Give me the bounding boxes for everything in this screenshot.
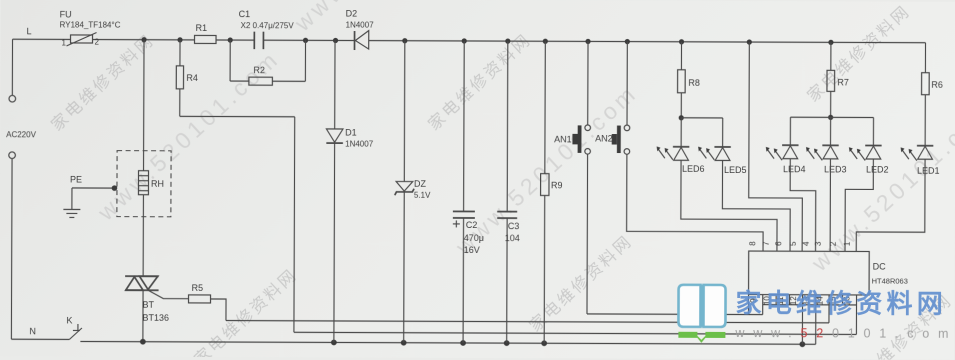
node AC220V label <box>6 130 36 139</box>
svg-text:104: 104 <box>505 233 520 243</box>
LED4 <box>766 117 806 174</box>
svg-text:R4: R4 <box>186 73 198 83</box>
wire LED6 to pin7 <box>681 160 778 251</box>
triac BT BT136 <box>125 276 169 323</box>
svg-text:LED6: LED6 <box>682 164 705 174</box>
svg-text:R7: R7 <box>837 77 849 87</box>
junction dots on top bus <box>141 37 833 45</box>
wire LED4 to pin4 <box>790 159 816 252</box>
heater RH in dashed enclosure <box>117 151 171 217</box>
svg-text:R6: R6 <box>931 80 943 90</box>
logo book icon <box>678 285 725 343</box>
capacitor C1 <box>238 9 294 49</box>
svg-text:AN2: AN2 <box>595 133 613 143</box>
svg-text:1: 1 <box>62 38 67 47</box>
svg-text:R5: R5 <box>192 283 204 293</box>
wire pin12 to ground bus <box>801 295 803 344</box>
svg-text:7: 7 <box>762 241 771 246</box>
svg-text:R2: R2 <box>253 65 265 75</box>
fuse FU RY184 <box>60 9 121 47</box>
svg-text:1N4007: 1N4007 <box>345 139 374 148</box>
diode D1 1N4007 <box>326 40 375 342</box>
wire bus A R5 to pin14 <box>226 293 829 323</box>
LED6 <box>657 118 705 174</box>
switch K <box>11 315 82 339</box>
wire pin13 to ground bus end <box>815 295 817 344</box>
svg-text:LED3: LED3 <box>824 164 847 174</box>
svg-text:C3: C3 <box>508 221 520 231</box>
svg-text:8: 8 <box>748 241 757 246</box>
svg-text:www.520101.com: www.520101.com <box>734 326 955 341</box>
wire LED2 to pin2 <box>845 159 873 252</box>
svg-text:LED5: LED5 <box>724 165 747 175</box>
wire bus B R4 to pin16 <box>294 293 857 335</box>
svg-text:K: K <box>66 315 72 325</box>
node PE with ground <box>63 174 117 217</box>
logo text <box>734 288 955 341</box>
svg-text:家电维修资料网: 家电维修资料网 <box>735 288 947 319</box>
svg-text:1: 1 <box>843 241 852 246</box>
svg-text:2: 2 <box>829 241 838 246</box>
svg-text:D2: D2 <box>346 8 358 18</box>
svg-text:3: 3 <box>814 241 823 246</box>
svg-text:470μ: 470μ <box>464 233 484 243</box>
LED3 <box>806 117 847 174</box>
push button AN1 <box>554 41 591 154</box>
svg-text:DZ: DZ <box>414 179 427 189</box>
svg-text:C1: C1 <box>239 9 251 19</box>
wire top bus <box>13 39 926 43</box>
svg-text:HT48R063: HT48R063 <box>872 277 908 286</box>
wire AN1 to pin9 bus <box>587 154 763 314</box>
capacitor C3 104 <box>497 41 521 343</box>
svg-text:FU: FU <box>60 9 72 19</box>
resistor R2 with loop wires <box>230 40 305 85</box>
LED5 <box>698 118 747 175</box>
wire LED5 to pin6 <box>722 160 790 251</box>
wire R5 to bus A <box>210 299 226 321</box>
diode D2 1N4007 <box>345 8 374 50</box>
svg-text:6: 6 <box>774 241 783 246</box>
svg-text:LED4: LED4 <box>783 164 806 174</box>
resistor R4 <box>176 40 198 89</box>
wire AN2 to pin8 <box>627 154 764 251</box>
wire bottom bus C <box>80 339 815 348</box>
svg-text:DC: DC <box>873 262 887 272</box>
svg-text:16V: 16V <box>464 245 480 255</box>
wire triac gate <box>148 290 189 298</box>
svg-text:BT136: BT136 <box>142 313 169 323</box>
capacitor C2 470u 16V <box>452 41 484 343</box>
svg-text:RH: RH <box>151 179 164 189</box>
resistor R6 <box>921 43 943 146</box>
svg-text:R1: R1 <box>196 23 208 33</box>
resistor R5 <box>189 283 211 303</box>
wire main line through RH <box>143 40 144 342</box>
resistor R7 <box>790 42 873 120</box>
node L terminal <box>9 26 32 102</box>
IC top pin numbers 8 7 6 5 4 3 2 1 <box>748 241 852 246</box>
wire R4 to bus B <box>179 89 295 332</box>
resistor R1 <box>195 23 217 44</box>
svg-text:PE: PE <box>70 174 82 184</box>
svg-text:R9: R9 <box>551 180 563 190</box>
svg-text:5: 5 <box>789 241 798 246</box>
svg-text:4: 4 <box>802 241 811 246</box>
push button AN2 <box>595 41 630 154</box>
svg-text:LED2: LED2 <box>866 164 889 174</box>
svg-text:AC220V: AC220V <box>6 130 36 139</box>
svg-text:1N4007: 1N4007 <box>346 20 375 29</box>
node N terminal <box>8 152 37 339</box>
wire LED3 to pin3 <box>829 159 831 251</box>
resistor R9 <box>540 41 563 343</box>
IC U1 HT48R063 body <box>749 251 908 295</box>
resistor R8 <box>677 42 723 121</box>
svg-text:5.1V: 5.1V <box>414 191 431 200</box>
svg-text:D1: D1 <box>345 127 357 137</box>
IC bottom pin cells and numbers 9-16 <box>748 295 856 315</box>
LED2 <box>849 117 889 174</box>
svg-text:LED1: LED1 <box>917 166 940 176</box>
svg-text:RY184_TF184°C: RY184_TF184°C <box>60 20 121 29</box>
svg-text:AN1: AN1 <box>554 134 572 144</box>
svg-text:R8: R8 <box>688 78 700 88</box>
svg-text:2: 2 <box>95 38 100 47</box>
zener DZ 5.1V <box>394 41 431 343</box>
svg-text:C2: C2 <box>466 220 478 230</box>
LED1 <box>901 146 940 176</box>
svg-text:N: N <box>29 326 36 336</box>
svg-text:BT: BT <box>142 300 154 310</box>
wire top bus to pin5 <box>749 42 803 251</box>
svg-text:L: L <box>27 26 32 36</box>
wire LED1 to pin1 <box>856 159 925 252</box>
svg-text:X2 0.47μ/275V: X2 0.47μ/275V <box>241 21 295 30</box>
